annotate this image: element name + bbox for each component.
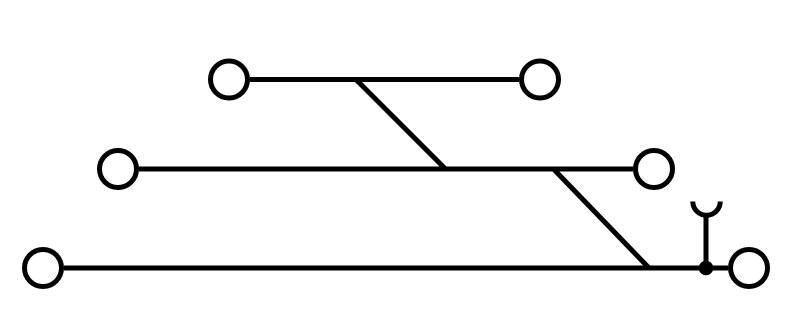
wire, level 1 rail <box>250 77 519 82</box>
terminal circle, level 3 right <box>731 250 768 287</box>
terminal circle, level 3 left <box>25 250 62 287</box>
terminal circle, level 1 left <box>211 61 248 98</box>
junction node on level 3 rail <box>699 261 714 276</box>
test socket fork <box>693 202 721 216</box>
terminal circle, level 1 right <box>522 61 559 98</box>
wire, level 3 rail <box>64 266 728 271</box>
wire, diagonal bridge level 1 to level 2 <box>356 80 446 170</box>
terminal circle, level 2 left <box>100 151 137 188</box>
wire, level 2 rail <box>139 167 633 172</box>
wire, diagonal bridge level 2 to level 3 <box>554 169 650 268</box>
wire, test-socket stem <box>704 216 709 268</box>
terminal circle, level 2 right <box>636 151 673 188</box>
